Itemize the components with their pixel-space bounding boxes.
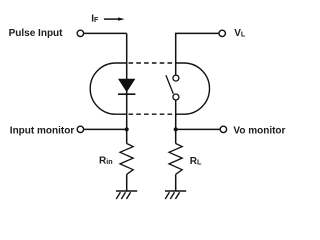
ground left [116,191,137,199]
wire VL to right rail [176,33,219,75]
svg-text:Rin: Rin [99,155,113,166]
wire Rin to ground [126,174,128,191]
terminal Vo monitor [220,126,226,132]
wire right rail to vo-monitor [176,128,220,130]
optocoupler package outline (dashed top) [129,62,176,64]
junction node right [174,127,178,131]
arrow IF current direction [104,18,119,20]
junction node left [125,127,129,131]
svg-text:Input monitor: Input monitor [10,126,75,137]
optocoupler package outline (stadium, solid arcs) [90,63,126,114]
switch lever [166,75,173,94]
terminal Input monitor [77,126,83,132]
wire pulse-input to left rail [84,32,127,34]
switch contact upper [173,75,179,81]
wire left rail (anode side) [126,33,128,143]
svg-text:IF: IF [91,13,99,24]
switch contact lower [173,94,179,100]
terminal Pulse Input [77,30,83,36]
LED D1 (triangle) [118,79,135,92]
ground right [165,191,186,199]
svg-text:Pulse Input: Pulse Input [9,28,64,39]
wire right rail below switch [175,100,177,144]
optocoupler package outline (dashed bottom) [129,113,176,115]
wire input-monitor to left rail [84,128,127,130]
resistor RL [169,144,182,175]
svg-text:Vo monitor: Vo monitor [233,126,285,137]
svg-text:RL: RL [190,156,202,167]
svg-text:VL: VL [234,28,246,39]
resistor Rin [120,144,133,175]
LED D1 (cathode bar) [118,93,135,95]
terminal VL [219,30,225,36]
wire RL to ground [175,174,177,191]
